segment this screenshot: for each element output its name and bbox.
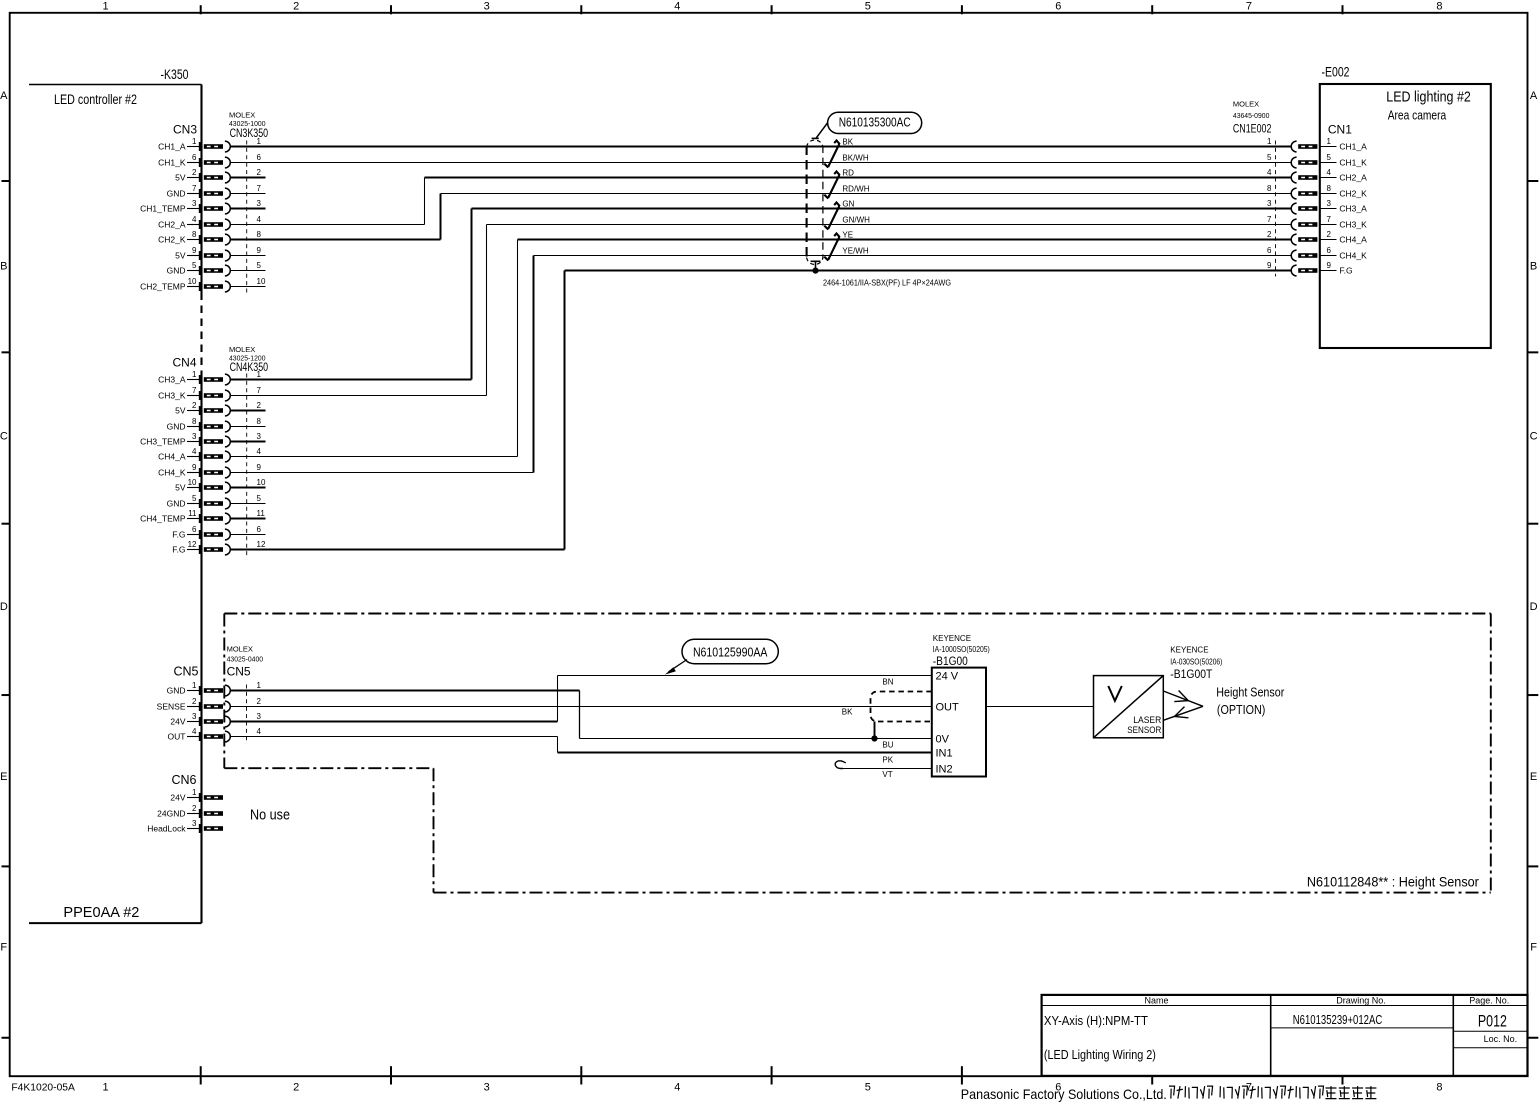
- svg-text:7: 7: [257, 184, 262, 193]
- svg-text:1: 1: [192, 681, 197, 690]
- svg-text:4: 4: [257, 215, 262, 224]
- svg-text:3: 3: [1267, 199, 1272, 208]
- svg-text:2: 2: [257, 401, 262, 410]
- svg-text:E: E: [0, 771, 7, 783]
- svg-text:3: 3: [257, 199, 262, 208]
- svg-text:IA-1000SO(50205): IA-1000SO(50205): [933, 645, 990, 654]
- svg-text:12: 12: [188, 540, 197, 549]
- svg-text:8: 8: [192, 417, 197, 426]
- svg-text:10: 10: [257, 478, 266, 487]
- svg-text:3: 3: [257, 432, 262, 441]
- svg-text:1: 1: [192, 788, 197, 797]
- svg-text:IN1: IN1: [936, 747, 953, 759]
- svg-text:7: 7: [1327, 215, 1332, 224]
- svg-text:F.G: F.G: [172, 529, 185, 539]
- svg-text:D: D: [1530, 601, 1538, 613]
- svg-text:8: 8: [257, 230, 262, 239]
- svg-text:9: 9: [257, 463, 262, 472]
- svg-text:1: 1: [103, 0, 109, 12]
- svg-text:GND: GND: [167, 685, 186, 695]
- svg-text:43645-0900: 43645-0900: [1233, 111, 1270, 120]
- svg-text:HeadLock: HeadLock: [147, 823, 186, 833]
- svg-text:3: 3: [1327, 199, 1332, 208]
- svg-text:9: 9: [1267, 261, 1272, 270]
- svg-text:CH3_A: CH3_A: [1339, 203, 1367, 213]
- svg-text:4: 4: [192, 215, 197, 224]
- svg-text:5: 5: [257, 261, 262, 270]
- svg-text:Drawing No.: Drawing No.: [1336, 996, 1386, 1006]
- svg-text:7: 7: [1267, 215, 1272, 224]
- svg-text:Height Sensor: Height Sensor: [1216, 684, 1285, 699]
- svg-text:1: 1: [192, 137, 197, 146]
- svg-text:5: 5: [1267, 153, 1272, 162]
- svg-text:8: 8: [257, 417, 262, 426]
- svg-text:PK: PK: [882, 756, 893, 765]
- svg-text:N610135239+012AC: N610135239+012AC: [1293, 1012, 1383, 1027]
- svg-text:Name: Name: [1144, 996, 1168, 1006]
- svg-text:A: A: [0, 90, 8, 102]
- svg-text:CN5: CN5: [227, 665, 251, 679]
- svg-text:CH4_A: CH4_A: [1339, 234, 1367, 244]
- svg-text:5: 5: [257, 494, 262, 503]
- svg-text:8: 8: [192, 230, 197, 239]
- svg-text:D: D: [0, 601, 8, 613]
- svg-text:CH4_K: CH4_K: [158, 467, 186, 477]
- svg-text:N610135300AC: N610135300AC: [839, 115, 911, 129]
- svg-text:CH2_K: CH2_K: [1339, 188, 1367, 198]
- svg-text:-B1G00T: -B1G00T: [1170, 669, 1212, 681]
- svg-text:6: 6: [1327, 246, 1332, 255]
- svg-text:2: 2: [1267, 230, 1272, 239]
- svg-text:2: 2: [192, 168, 197, 177]
- svg-text:CN3K350: CN3K350: [230, 126, 269, 140]
- svg-text:CH4_K: CH4_K: [1339, 250, 1367, 260]
- svg-text:OUT: OUT: [168, 731, 186, 741]
- svg-text:MOLEX: MOLEX: [1233, 100, 1259, 109]
- svg-text:4: 4: [1327, 168, 1332, 177]
- svg-text:24V: 24V: [170, 716, 185, 726]
- svg-text:CH3_TEMP: CH3_TEMP: [140, 436, 186, 446]
- svg-text:CH1_A: CH1_A: [158, 141, 186, 151]
- svg-text:BK/WH: BK/WH: [842, 153, 868, 162]
- svg-text:F.G: F.G: [172, 544, 185, 554]
- svg-text:8: 8: [1327, 184, 1332, 193]
- svg-text:8: 8: [1267, 184, 1272, 193]
- svg-text:LED controller #2: LED controller #2: [54, 92, 137, 107]
- svg-text:GND: GND: [167, 421, 186, 431]
- svg-text:CN1E002: CN1E002: [1233, 122, 1272, 136]
- svg-text:GND: GND: [167, 265, 186, 275]
- svg-text:CH1_TEMP: CH1_TEMP: [140, 203, 186, 213]
- svg-text:5V: 5V: [175, 250, 186, 260]
- svg-text:7: 7: [257, 386, 262, 395]
- svg-text:1: 1: [192, 370, 197, 379]
- svg-text:24V: 24V: [170, 792, 185, 802]
- svg-text:5V: 5V: [175, 405, 186, 415]
- svg-text:10: 10: [188, 277, 197, 286]
- svg-text:-B1G00: -B1G00: [933, 656, 968, 668]
- svg-text:1: 1: [257, 681, 262, 690]
- svg-text:VT: VT: [882, 770, 892, 779]
- svg-text:24 V: 24 V: [936, 670, 959, 682]
- svg-text:3: 3: [484, 0, 490, 12]
- svg-text:F: F: [0, 942, 7, 954]
- svg-text:F: F: [1530, 942, 1537, 954]
- svg-text:F4K1020-05A: F4K1020-05A: [11, 1083, 75, 1094]
- svg-text:5: 5: [865, 1082, 871, 1094]
- svg-text:2: 2: [293, 0, 299, 12]
- svg-text:43025-0400: 43025-0400: [227, 655, 264, 664]
- svg-text:CN6: CN6: [171, 773, 196, 787]
- svg-text:7: 7: [1246, 0, 1252, 12]
- svg-text:6: 6: [257, 153, 262, 162]
- svg-text:9: 9: [192, 463, 197, 472]
- svg-text:CN3: CN3: [173, 123, 197, 137]
- svg-text:GN/WH: GN/WH: [842, 215, 870, 224]
- svg-text:N610112848** : Height Sensor: N610112848** : Height Sensor: [1307, 875, 1479, 890]
- svg-text:(OPTION): (OPTION): [1217, 702, 1266, 717]
- svg-text:1: 1: [1267, 137, 1272, 146]
- svg-text:MOLEX: MOLEX: [227, 645, 253, 654]
- svg-text:Panasonic Factory Solutions Co: Panasonic Factory Solutions Co.,Ltd.: [961, 1087, 1167, 1102]
- svg-text:KEYENCE: KEYENCE: [933, 634, 971, 643]
- svg-text:1: 1: [103, 1082, 109, 1094]
- svg-text:No use: No use: [250, 808, 290, 824]
- svg-text:6: 6: [257, 525, 262, 534]
- svg-text:6: 6: [192, 525, 197, 534]
- svg-text:2: 2: [1327, 230, 1332, 239]
- svg-text:5V: 5V: [175, 172, 186, 182]
- svg-text:24GND: 24GND: [157, 808, 185, 818]
- svg-text:11: 11: [188, 509, 197, 518]
- svg-text:1: 1: [257, 370, 262, 379]
- svg-text:4: 4: [192, 727, 197, 736]
- svg-text:CH3_K: CH3_K: [1339, 219, 1367, 229]
- svg-text:9: 9: [192, 246, 197, 255]
- svg-text:CH1_K: CH1_K: [1339, 157, 1367, 167]
- svg-text:1: 1: [257, 137, 262, 146]
- svg-text:KEYENCE: KEYENCE: [1170, 645, 1208, 654]
- svg-text:C: C: [0, 431, 8, 443]
- svg-text:12: 12: [257, 540, 266, 549]
- svg-text:6: 6: [1267, 246, 1272, 255]
- svg-text:RD/WH: RD/WH: [842, 184, 869, 193]
- svg-text:BU: BU: [882, 740, 893, 749]
- svg-text:3: 3: [192, 712, 197, 721]
- svg-text:N610125990AA: N610125990AA: [693, 645, 768, 660]
- svg-text:CH2_TEMP: CH2_TEMP: [140, 281, 186, 291]
- svg-text:CH4_TEMP: CH4_TEMP: [140, 513, 186, 523]
- svg-text:-K350: -K350: [161, 67, 189, 82]
- svg-text:IA-030SO(50206): IA-030SO(50206): [1170, 658, 1222, 667]
- svg-text:RD: RD: [842, 168, 854, 177]
- svg-text:CN5: CN5: [173, 665, 198, 679]
- svg-text:CH2_K: CH2_K: [158, 234, 186, 244]
- svg-text:BK: BK: [842, 137, 853, 146]
- svg-text:7: 7: [192, 386, 197, 395]
- svg-text:Loc. No.: Loc. No.: [1484, 1034, 1518, 1044]
- svg-text:IN2: IN2: [936, 763, 953, 775]
- svg-text:XY-Axis (H):NPM-TT: XY-Axis (H):NPM-TT: [1044, 1013, 1148, 1028]
- svg-text:6: 6: [1055, 0, 1061, 12]
- svg-text:CH3_K: CH3_K: [158, 390, 186, 400]
- svg-text:B: B: [0, 260, 7, 272]
- svg-text:8: 8: [1436, 1082, 1442, 1094]
- svg-text:Area camera: Area camera: [1388, 108, 1447, 123]
- svg-text:OUT: OUT: [936, 701, 960, 713]
- svg-text:9: 9: [257, 246, 262, 255]
- svg-text:5: 5: [1327, 153, 1332, 162]
- svg-text:2: 2: [257, 697, 262, 706]
- svg-text:-E002: -E002: [1322, 65, 1350, 80]
- svg-text:4: 4: [674, 1082, 680, 1094]
- svg-text:5: 5: [865, 0, 871, 12]
- svg-text:8: 8: [1436, 0, 1442, 12]
- svg-text:10: 10: [257, 277, 266, 286]
- svg-text:5: 5: [192, 261, 197, 270]
- svg-text:GND: GND: [167, 188, 186, 198]
- svg-text:3: 3: [192, 199, 197, 208]
- svg-text:LED lighting #2: LED lighting #2: [1386, 90, 1471, 106]
- svg-text:0V: 0V: [936, 733, 950, 745]
- svg-text:CH1_A: CH1_A: [1339, 141, 1367, 151]
- svg-text:A: A: [1530, 90, 1538, 102]
- svg-text:9: 9: [1327, 261, 1332, 270]
- svg-text:3: 3: [257, 712, 262, 721]
- svg-text:SENSOR: SENSOR: [1127, 725, 1161, 736]
- svg-text:CH2_A: CH2_A: [1339, 172, 1367, 182]
- svg-text:YE: YE: [842, 230, 853, 239]
- svg-text:2: 2: [192, 401, 197, 410]
- svg-text:SENSE: SENSE: [157, 701, 186, 711]
- svg-text:Page. No.: Page. No.: [1469, 995, 1509, 1005]
- svg-text:LASER: LASER: [1133, 715, 1161, 726]
- svg-text:4: 4: [674, 0, 680, 12]
- svg-text:5V: 5V: [175, 482, 186, 492]
- svg-text:6: 6: [192, 153, 197, 162]
- svg-text:GND: GND: [167, 498, 186, 508]
- svg-text:BN: BN: [882, 677, 893, 686]
- svg-text:P012: P012: [1478, 1012, 1507, 1030]
- svg-text:CN1: CN1: [1328, 123, 1352, 137]
- svg-text:C: C: [1530, 431, 1538, 443]
- svg-text:PPE0AA #2: PPE0AA #2: [63, 904, 139, 921]
- svg-text:3: 3: [484, 1082, 490, 1094]
- svg-text:E: E: [1530, 771, 1537, 783]
- svg-text:2: 2: [257, 168, 262, 177]
- svg-text:7: 7: [192, 184, 197, 193]
- svg-text:CN4K350: CN4K350: [230, 360, 269, 374]
- svg-text:3: 3: [192, 819, 197, 828]
- svg-text:CH1_K: CH1_K: [158, 157, 186, 167]
- svg-text:(LED Lighting Wiring 2): (LED Lighting Wiring 2): [1044, 1047, 1156, 1062]
- svg-text:4: 4: [257, 447, 262, 456]
- svg-text:2: 2: [293, 1082, 299, 1094]
- svg-text:4: 4: [257, 727, 262, 736]
- svg-text:CH3_A: CH3_A: [158, 374, 186, 384]
- svg-text:2: 2: [192, 697, 197, 706]
- svg-text:3: 3: [192, 432, 197, 441]
- svg-text:11: 11: [257, 509, 266, 518]
- svg-text:2464-1061/IIA-SBX(PF) LF 4P×24: 2464-1061/IIA-SBX(PF) LF 4P×24AWG: [823, 278, 951, 288]
- svg-text:B: B: [1530, 260, 1537, 272]
- svg-text:CH4_A: CH4_A: [158, 451, 186, 461]
- svg-text:BK: BK: [842, 707, 853, 716]
- svg-text:10: 10: [188, 478, 197, 487]
- svg-text:4: 4: [192, 447, 197, 456]
- svg-text:YE/WH: YE/WH: [842, 246, 868, 255]
- svg-text:5: 5: [192, 494, 197, 503]
- svg-text:F.G: F.G: [1339, 265, 1352, 275]
- svg-text:1: 1: [1327, 137, 1332, 146]
- svg-text:4: 4: [1267, 168, 1272, 177]
- svg-text:GN: GN: [842, 199, 854, 208]
- svg-text:CN4: CN4: [172, 356, 196, 370]
- svg-text:CH2_A: CH2_A: [158, 219, 186, 229]
- svg-text:2: 2: [192, 804, 197, 813]
